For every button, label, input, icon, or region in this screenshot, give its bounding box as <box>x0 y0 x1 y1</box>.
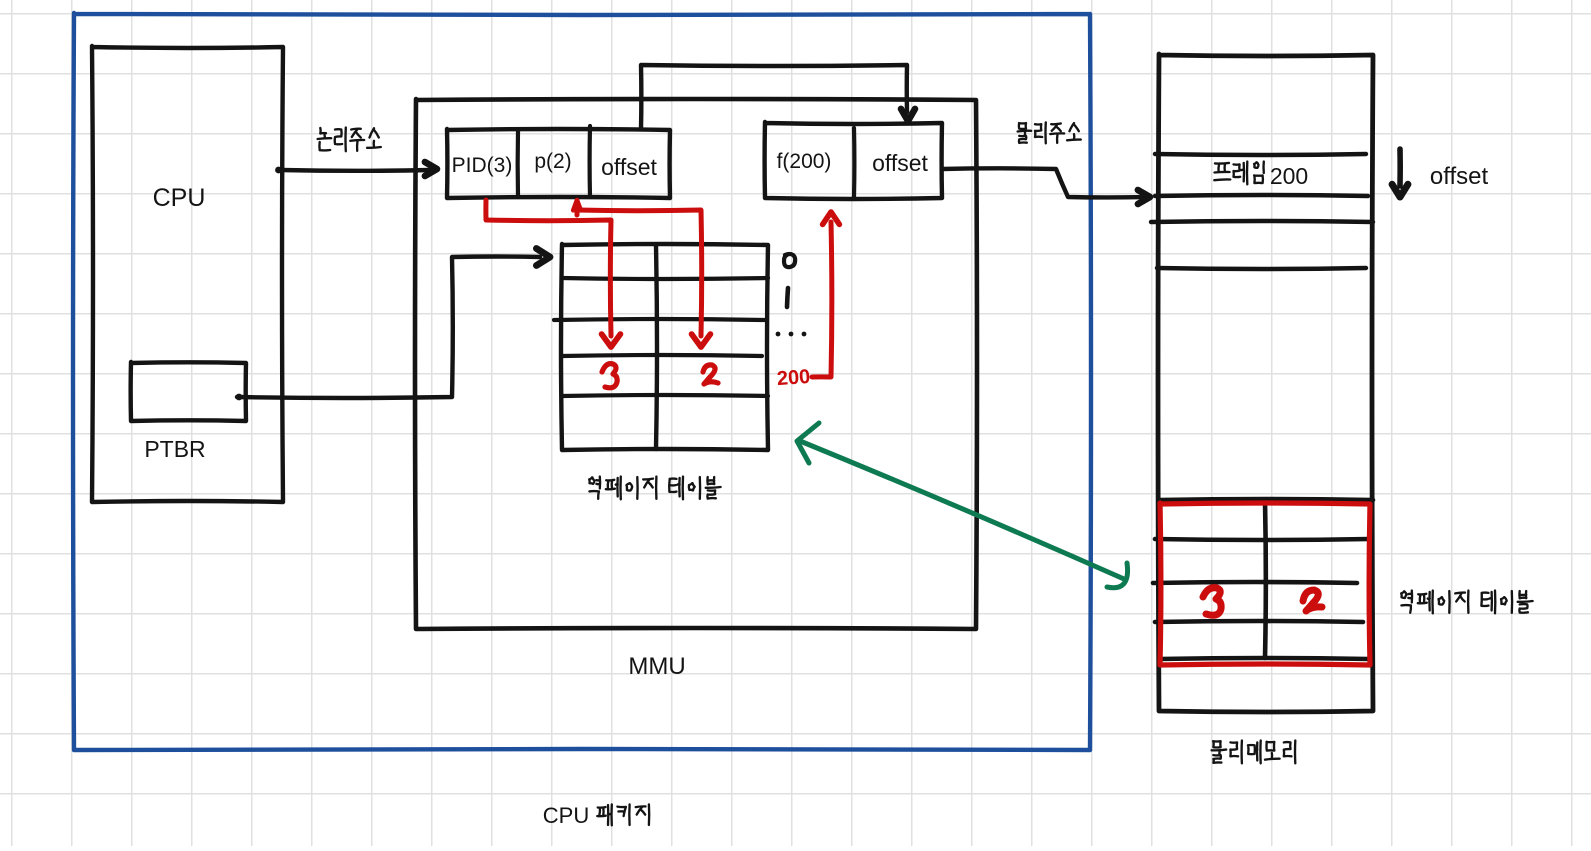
svg-text:p(2): p(2) <box>534 150 571 173</box>
svg-text:CPU: CPU <box>153 184 206 212</box>
svg-text:200: 200 <box>1270 163 1308 189</box>
PID cell divider 1 <box>516 131 521 197</box>
frame 200 label (peureim 200) <box>1215 162 1229 165</box>
top bypass wire offset->f box <box>641 65 907 129</box>
table row line 1 <box>562 278 768 279</box>
memory table bottom line <box>1159 658 1369 659</box>
offset down arrow <box>1397 149 1403 186</box>
index 0 <box>784 254 795 267</box>
inverted page table label right (yeokpeiji teibeul) <box>1401 591 1406 598</box>
PID register box <box>447 129 670 198</box>
table row line 4 <box>562 395 768 396</box>
red 3 in memory table <box>1203 588 1221 616</box>
f(200) register box <box>765 122 942 199</box>
svg-text:MMU: MMU <box>628 653 685 680</box>
red wire 200 to f box <box>812 222 832 377</box>
red 3 in table <box>602 364 617 388</box>
MMU box <box>415 99 977 629</box>
physical address label (mullijuso) <box>1019 123 1026 129</box>
physical address wire <box>942 168 1146 197</box>
PTBR to table wire <box>237 257 540 399</box>
memory table line 3 <box>1153 582 1357 583</box>
table row line 2 <box>554 319 765 320</box>
red 2 in memory table <box>1303 590 1322 611</box>
green arrow hook end <box>1107 563 1128 588</box>
svg-text:offset: offset <box>1430 163 1489 190</box>
svg-text:f(200): f(200) <box>777 150 832 173</box>
table row line 3 <box>562 355 762 356</box>
memory line 3 <box>1151 221 1373 222</box>
red wire p(2) to table <box>575 203 580 215</box>
memory table mid vertical <box>1263 502 1268 658</box>
memory table top line <box>1159 499 1373 500</box>
physical memory box <box>1158 54 1373 712</box>
svg-text:PTBR: PTBR <box>144 436 205 462</box>
physical memory label (mullimemori) <box>1213 741 1221 747</box>
CPU package outer box <box>73 13 1091 750</box>
index 1 <box>787 288 788 307</box>
f box divider <box>852 128 857 197</box>
svg-text:offset: offset <box>601 154 657 180</box>
logical address wire <box>281 168 430 173</box>
memory line 1 <box>1155 154 1366 155</box>
green arrow memory table to MMU table <box>800 441 1124 579</box>
red wire PID to table <box>486 200 611 336</box>
red 2 in table <box>703 365 718 384</box>
memory table line 4 <box>1155 621 1363 622</box>
index dots <box>776 332 781 337</box>
PTBR box <box>131 362 246 421</box>
memory line 2 <box>1155 195 1368 196</box>
inverted page table label (yeokpeiji teibeul) <box>589 477 594 484</box>
table mid vertical <box>656 246 657 449</box>
svg-text:CPU: CPU <box>543 803 589 828</box>
inverted page table box <box>561 244 768 450</box>
memory table line 2 <box>1155 539 1369 540</box>
CPU box <box>92 46 283 502</box>
svg-text:200: 200 <box>776 366 811 390</box>
PID cell divider 2 <box>587 126 592 197</box>
red highlight box around memory table <box>1160 503 1370 665</box>
svg-text:offset: offset <box>872 150 928 176</box>
logical address label (nonrijuso) <box>320 128 326 134</box>
memory line 4 <box>1157 268 1366 269</box>
svg-text:PID(3): PID(3) <box>452 154 513 177</box>
